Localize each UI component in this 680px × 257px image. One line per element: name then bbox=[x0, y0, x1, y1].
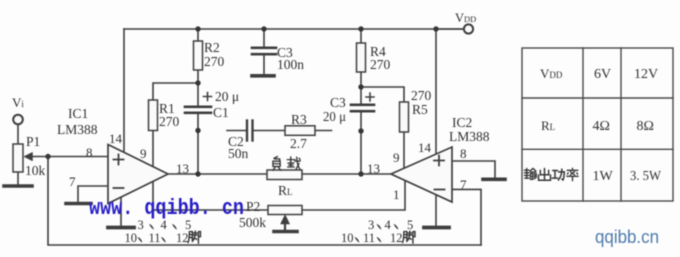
table cell output power (shu chu gong lv) bbox=[524, 168, 536, 179]
svg-text:R2: R2 bbox=[204, 40, 220, 55]
svg-text:IC2: IC2 bbox=[452, 115, 472, 130]
capacitor C3 100n bbox=[252, 48, 276, 54]
ground P1 bbox=[4, 184, 32, 188]
svg-text:P2: P2 bbox=[246, 199, 260, 214]
node P1 wiper bbox=[45, 154, 50, 159]
svg-text:R3: R3 bbox=[291, 112, 307, 127]
svg-text:5: 5 bbox=[407, 218, 413, 232]
svg-text:270: 270 bbox=[159, 114, 180, 129]
node rail-IC2p14 bbox=[433, 26, 438, 31]
wire IC1 pin7 to ground bbox=[78, 186, 108, 202]
node C1-C2 bbox=[195, 128, 200, 133]
svg-text:qqibb.cn: qqibb.cn bbox=[595, 227, 659, 247]
pins note IC1: 3,4,5 bbox=[138, 218, 192, 232]
label fuzai (load) bbox=[273, 157, 281, 171]
wire C3 20u branch bbox=[360, 87, 362, 174]
P1 wiper arrow bbox=[24, 152, 48, 160]
wire R4 to R5 link bbox=[361, 87, 404, 169]
svg-text:9: 9 bbox=[393, 150, 400, 165]
svg-text:13: 13 bbox=[176, 161, 189, 176]
ground IC2 pins345 bbox=[424, 226, 449, 230]
node rail-R2 bbox=[195, 26, 200, 31]
svg-text:8Ω: 8Ω bbox=[637, 119, 654, 134]
svg-text:IC1: IC1 bbox=[68, 106, 88, 121]
wire IC1 pin8 input bbox=[48, 156, 108, 158]
wire VDD stub bbox=[436, 28, 463, 30]
ground IC2 pin8 bbox=[483, 178, 505, 182]
svg-text:7: 7 bbox=[460, 177, 467, 192]
svg-text:13: 13 bbox=[367, 161, 380, 176]
wire IC2 pin14 drop bbox=[435, 29, 437, 154]
wire R4 branch bbox=[360, 29, 362, 87]
svg-text:270: 270 bbox=[370, 57, 391, 72]
svg-text:Vi: Vi bbox=[12, 95, 24, 110]
svg-text:10: 10 bbox=[341, 231, 354, 245]
wire node 13 between outputs bbox=[168, 173, 391, 175]
ground IC1 pins345 bbox=[108, 226, 134, 230]
wire P1 top lead bbox=[17, 124, 19, 144]
svg-text:8: 8 bbox=[460, 146, 467, 161]
capacitor C1 bbox=[185, 107, 211, 113]
svg-text:C1: C1 bbox=[213, 105, 229, 120]
load resistor RL box bbox=[267, 170, 302, 180]
wire P2 to IC2 pin1 bbox=[302, 181, 405, 210]
resistor R3 bbox=[285, 126, 315, 136]
pins note IC2: 3,4,5 bbox=[368, 218, 413, 232]
node rail-R4 bbox=[358, 26, 363, 31]
svg-text:11: 11 bbox=[363, 231, 375, 245]
svg-text:11: 11 bbox=[149, 231, 161, 245]
resistor R1 bbox=[149, 100, 158, 131]
pins note IC1: 10,11,12 jiao bbox=[125, 231, 201, 245]
svg-text:3. 5W: 3. 5W bbox=[630, 169, 662, 184]
wire bottom feedback rail bbox=[48, 157, 481, 246]
svg-text:7: 7 bbox=[69, 174, 76, 189]
wire IC2 pins345 to ground bbox=[435, 195, 437, 226]
svg-text:RL: RL bbox=[278, 183, 293, 198]
svg-text:270: 270 bbox=[204, 54, 225, 69]
node R2-R1-C1 bbox=[195, 80, 200, 85]
wire R2 branch bbox=[197, 29, 199, 83]
wire R1 branch bbox=[153, 83, 198, 166]
node 13 left bbox=[195, 171, 200, 176]
wire IC2 pin8 to ground bbox=[452, 161, 495, 178]
capacitor C3 20u bbox=[351, 105, 374, 111]
svg-text:1W: 1W bbox=[593, 169, 614, 184]
svg-text:6V: 6V bbox=[594, 67, 611, 82]
svg-text:12: 12 bbox=[390, 231, 403, 245]
svg-text:1: 1 bbox=[393, 187, 400, 202]
VDD terminal bbox=[464, 24, 473, 33]
svg-text:12: 12 bbox=[176, 231, 189, 245]
ground IC1 pin7 bbox=[66, 202, 91, 206]
ground P2 bbox=[274, 230, 297, 234]
ground C3 100n bbox=[252, 74, 274, 78]
wire P1 bottom lead bbox=[17, 172, 19, 185]
svg-text:8: 8 bbox=[86, 145, 93, 160]
svg-text:10k: 10k bbox=[25, 163, 46, 178]
potentiometer P1 bbox=[13, 144, 23, 172]
svg-text:12V: 12V bbox=[634, 67, 658, 82]
resistor R4 bbox=[357, 43, 366, 72]
node R4-R5-C3 bbox=[358, 84, 363, 89]
capacitor C2 bbox=[247, 121, 253, 141]
pins note IC2: 10,11,12 jiao bbox=[341, 231, 415, 245]
svg-text:www. qqibb. cn: www. qqibb. cn bbox=[89, 196, 244, 221]
resistor R5 bbox=[400, 102, 409, 132]
svg-text:10: 10 bbox=[125, 231, 138, 245]
wire IC1 pin1 to P2 bbox=[153, 182, 268, 211]
svg-text:270: 270 bbox=[411, 88, 432, 103]
resistor R2 bbox=[194, 41, 203, 70]
svg-text:9: 9 bbox=[140, 146, 147, 161]
wire R3 right stub bbox=[315, 130, 332, 132]
svg-text:4Ω: 4Ω bbox=[593, 119, 610, 134]
svg-text:LM388: LM388 bbox=[57, 122, 98, 137]
node rail-C3 bbox=[261, 26, 266, 31]
wire C2 to R3 bbox=[254, 130, 285, 132]
wire IC1 pins345 to ground bbox=[120, 197, 122, 227]
wire C1 branch bbox=[197, 83, 199, 174]
svg-text:4: 4 bbox=[385, 218, 392, 232]
svg-text:RL: RL bbox=[541, 118, 555, 133]
svg-text:C3: C3 bbox=[330, 95, 346, 110]
svg-text:50n: 50n bbox=[228, 146, 249, 161]
node R3-C3 bbox=[358, 128, 363, 133]
wire left drop to IC1 pin 14 bbox=[123, 29, 125, 151]
wire C2 left lead bbox=[227, 130, 246, 132]
node 13 right bbox=[358, 171, 363, 176]
svg-text:VDD: VDD bbox=[455, 11, 476, 25]
svg-text:100n: 100n bbox=[277, 57, 304, 72]
svg-text:3: 3 bbox=[368, 218, 374, 232]
potentiometer P2 bbox=[268, 206, 302, 215]
svg-text:P1: P1 bbox=[26, 134, 40, 149]
svg-text:20 μ: 20 μ bbox=[323, 109, 346, 124]
op-amp IC1 LM388 bbox=[108, 145, 168, 204]
op-amp IC2 LM388 bbox=[391, 147, 452, 202]
svg-text:14: 14 bbox=[418, 140, 432, 155]
wire top supply rail bbox=[124, 28, 463, 30]
svg-text:VDD: VDD bbox=[540, 66, 563, 81]
wire C3 100n branch bbox=[263, 29, 265, 74]
wire IC2 pin7 to bottom rail bbox=[452, 189, 481, 245]
svg-text:14: 14 bbox=[109, 131, 123, 146]
input terminal Vi bbox=[13, 115, 23, 125]
P2 wiper arrow bbox=[281, 215, 290, 231]
svg-text:LM388: LM388 bbox=[449, 129, 490, 144]
svg-text:2.7: 2.7 bbox=[290, 136, 307, 151]
svg-text:20 μ: 20 μ bbox=[215, 89, 239, 104]
svg-text:R5: R5 bbox=[412, 102, 428, 117]
